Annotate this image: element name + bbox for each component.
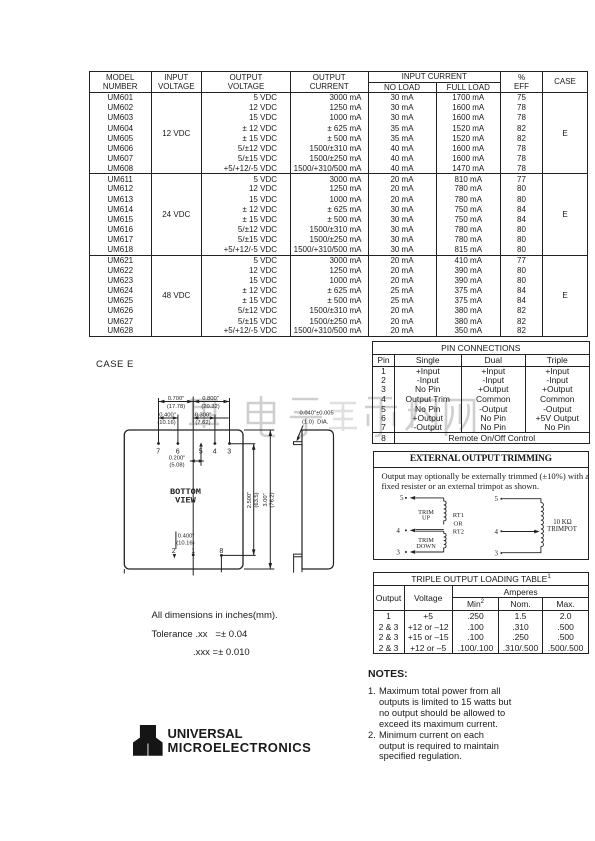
dim 3.00 vertical line bbox=[269, 430, 271, 569]
svg-text:0.400": 0.400" bbox=[159, 413, 176, 419]
pin 3 horizontal extension to dim bbox=[230, 443, 256, 445]
RT1 OR RT2 labels bbox=[453, 512, 464, 536]
pin 4 bbox=[214, 442, 217, 445]
pin 6 extension line bbox=[177, 415, 179, 444]
svg-text:DOWN: DOWN bbox=[416, 543, 436, 550]
BOTTOM VIEW text bbox=[170, 487, 201, 506]
svg-text:(5.08): (5.08) bbox=[169, 463, 184, 469]
resistor RT1 (trim up) bbox=[444, 498, 446, 525]
svg-text:(20.32): (20.32) bbox=[201, 404, 219, 410]
pin 5 extension line bbox=[200, 446, 202, 466]
svg-text:0.800": 0.800" bbox=[202, 396, 219, 402]
side view left edge extension bbox=[301, 569, 303, 572]
pin dia label bbox=[300, 411, 334, 426]
dimension note lines bbox=[152, 610, 278, 621]
pin 5 terminal dot bbox=[405, 497, 407, 499]
bottom view case outline bbox=[124, 430, 243, 569]
dim 0.700/0.800 line bbox=[159, 401, 230, 403]
side view body bbox=[302, 430, 334, 569]
pin 7 bbox=[157, 442, 160, 445]
dim 0.400 bottom (pin spacing) bbox=[175, 532, 177, 550]
svg-text:5: 5 bbox=[199, 449, 203, 456]
pin 3 terminal dot bbox=[405, 551, 407, 553]
side view top pin bbox=[294, 442, 303, 445]
svg-text:2.500": 2.500" bbox=[247, 492, 253, 509]
logo bbox=[133, 725, 163, 761]
pin 5 (up arrow) bbox=[199, 443, 203, 447]
svg-text:7: 7 bbox=[156, 449, 160, 456]
bottom extension to 3.00 dim bbox=[244, 568, 274, 570]
pin 8 horizontal extension to dim bbox=[221, 554, 255, 556]
svg-text:(10.16): (10.16) bbox=[157, 420, 175, 426]
watermark (faint chinese text) bbox=[140, 392, 500, 438]
dim 2.500 vertical line bbox=[253, 444, 255, 556]
wire pin5 to RT1 with arrow bbox=[416, 497, 444, 499]
CASE E mechanical drawing bbox=[100, 392, 345, 585]
svg-text:3: 3 bbox=[227, 449, 231, 456]
node pin 5 (right circuit) bbox=[495, 495, 499, 558]
svg-text:4: 4 bbox=[495, 528, 499, 536]
svg-text:UP: UP bbox=[422, 515, 431, 522]
svg-text:8: 8 bbox=[219, 548, 223, 555]
svg-text:(10.16): (10.16) bbox=[176, 541, 194, 547]
svg-text:2: 2 bbox=[172, 548, 176, 555]
trim up / trim down labels bbox=[416, 509, 436, 550]
dim 3.00 labels (rotated) bbox=[263, 492, 276, 507]
rect left edge extension tick bbox=[123, 569, 125, 574]
dim 0.300 line bbox=[193, 417, 229, 419]
external output trimming box bbox=[373, 451, 590, 560]
wire RT2 to pin 3 with arrow bbox=[416, 551, 444, 553]
svg-text:3: 3 bbox=[495, 550, 499, 558]
case label bbox=[96, 359, 134, 370]
side view bottom pin bbox=[294, 554, 302, 573]
dimension labels top bbox=[157, 396, 219, 469]
pin 7 extension line bbox=[158, 398, 160, 444]
svg-text:3: 3 bbox=[396, 548, 400, 556]
pin 4 terminal dot bbox=[405, 529, 407, 531]
pin 6 bbox=[177, 442, 180, 445]
pin 8 bbox=[220, 554, 223, 557]
svg-text:0.400": 0.400" bbox=[178, 534, 195, 540]
wiper wire pin 4 to trimpot with arrow bbox=[502, 531, 534, 533]
svg-text:0.300": 0.300" bbox=[195, 413, 212, 419]
node pin 5 (left circuit) bbox=[396, 494, 404, 556]
svg-text:(76.2): (76.2) bbox=[269, 492, 275, 507]
svg-text:5: 5 bbox=[400, 494, 404, 502]
svg-text:RT2: RT2 bbox=[453, 529, 464, 536]
svg-text:0.200": 0.200" bbox=[169, 455, 186, 461]
svg-text:(63.5): (63.5) bbox=[254, 492, 260, 507]
pin dia leader arrow bbox=[298, 426, 304, 439]
triple output loading table bbox=[373, 572, 590, 653]
dim 0.200 line bbox=[190, 460, 204, 462]
svg-text:VIEW: VIEW bbox=[175, 496, 196, 506]
svg-text:TRIMPOT: TRIMPOT bbox=[547, 526, 578, 533]
dim 2.500 labels (rotated) bbox=[247, 492, 260, 509]
svg-text:4: 4 bbox=[396, 527, 400, 535]
top extension to 3.00 dim bbox=[244, 429, 274, 431]
svg-text:OR: OR bbox=[454, 521, 464, 528]
resistor RT2 (trim down) bbox=[444, 531, 446, 552]
pin 5 terminal dot (right) bbox=[500, 498, 502, 500]
svg-text:0.700": 0.700" bbox=[168, 396, 185, 402]
wire trimpot bottom to pin 3 bbox=[502, 547, 541, 553]
svg-text:5: 5 bbox=[495, 495, 499, 503]
pin 4 extension line bbox=[214, 415, 216, 444]
pin connections table bbox=[372, 341, 590, 444]
svg-text:(7.62): (7.62) bbox=[195, 420, 210, 426]
pin number labels 7 6 5 4 3 bbox=[156, 449, 231, 456]
pin 2 label bbox=[172, 548, 224, 555]
svg-text:(1.0) DIA.: (1.0) DIA. bbox=[302, 420, 329, 426]
dim 0.400 line bbox=[159, 417, 178, 419]
wire pin5 to trimpot top bbox=[502, 499, 541, 503]
10 K ohm trimpot label bbox=[547, 519, 578, 533]
centerline bbox=[192, 397, 194, 576]
main model table bbox=[89, 71, 588, 337]
svg-text:0.040"±0.005: 0.040"±0.005 bbox=[300, 411, 334, 417]
svg-text:3.00": 3.00" bbox=[263, 493, 269, 506]
svg-text:4: 4 bbox=[213, 449, 217, 456]
pin 4 terminal dot (right) bbox=[500, 530, 502, 532]
notes bbox=[368, 668, 511, 762]
pin 3 terminal dot (right) bbox=[500, 552, 502, 554]
pin 8 extension below bbox=[220, 555, 222, 572]
trimpot 10k resistor body bbox=[541, 503, 544, 547]
svg-text:10 KΩ: 10 KΩ bbox=[553, 519, 571, 526]
svg-text:(17.78): (17.78) bbox=[167, 404, 185, 410]
wire RT1/RT2 junction to pin 4 (double line) with arrow bbox=[416, 530, 444, 532]
trimming schematics bbox=[390, 491, 582, 562]
pin 1 bbox=[192, 553, 195, 556]
pin 3 extension line bbox=[229, 398, 231, 444]
svg-text:RT1: RT1 bbox=[453, 512, 464, 519]
pin 3 bbox=[228, 442, 231, 445]
